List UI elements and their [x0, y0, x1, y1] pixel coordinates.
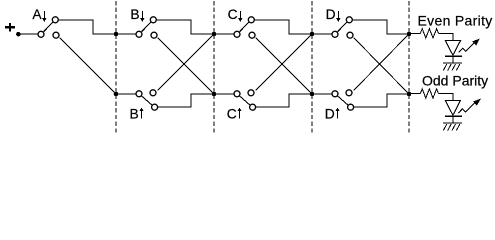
- label B with down arrow: [130, 7, 144, 22]
- wire: switch D top throw to node: [353, 20, 409, 34]
- wire: + to switch A: [21, 33, 38, 35]
- stage separator (dashed) 1: [115, 1, 117, 134]
- wire: resistor to LED (odd): [439, 94, 453, 101]
- node: bottom rail junction 2: [212, 92, 217, 97]
- switch C (bottom SPDT): [234, 90, 256, 110]
- wire: switch C upper throw diagonal to top rail: [256, 34, 312, 90]
- switch D (bottom SPDT): [332, 90, 354, 110]
- wire: bottom rail node to switch C: [214, 93, 234, 95]
- wire: switch A top throw to node: [59, 20, 116, 34]
- switch A (top SPDT): [38, 17, 59, 38]
- node: bottom rail junction 3: [310, 92, 315, 97]
- node: top rail junction 4: [407, 32, 412, 37]
- stage separator (dashed) 2: [213, 1, 215, 134]
- wire: switch D lower throw diagonal to bottom rail: [354, 38, 409, 94]
- wire: rail to resistor (even): [409, 32, 420, 35]
- svg-text:Even Parity: Even Parity: [418, 12, 493, 28]
- stage separator (dashed) 3: [311, 1, 313, 134]
- node: top rail junction 2: [212, 32, 217, 37]
- wire: resistor to LED (even): [439, 33, 453, 40]
- wire: switch B bottom throw to node: [158, 94, 214, 107]
- svg-text:D: D: [326, 7, 336, 22]
- LED odd: [445, 101, 462, 124]
- wire: switch C lower throw diagonal to bottom rail: [256, 38, 312, 94]
- svg-text:D: D: [325, 106, 335, 121]
- ground (even): [443, 63, 462, 70]
- label C with down arrow: [228, 7, 243, 22]
- wire: switch C top throw to node: [255, 20, 312, 34]
- + supply terminal: [5, 23, 15, 32]
- light emission arrow (even): [459, 39, 480, 53]
- node: top rail junction 3: [310, 32, 315, 37]
- light emission arrow (odd): [458, 99, 481, 114]
- svg-text:Odd Parity: Odd Parity: [422, 72, 488, 88]
- ground (odd): [443, 123, 462, 130]
- resistor (even): [420, 29, 438, 38]
- wire: switch B upper throw diagonal to top rail: [158, 34, 214, 90]
- wire: top rail node to switch B: [116, 33, 136, 35]
- label B with up arrow: [129, 106, 143, 121]
- stage separator (dashed) 4: [408, 1, 410, 134]
- label A with down arrow: [32, 7, 46, 22]
- wire: bottom rail node to switch B: [116, 93, 136, 95]
- label C with up arrow: [227, 106, 242, 121]
- node: bottom rail junction 4: [407, 92, 412, 97]
- wire: bottom rail node to switch D: [312, 93, 332, 95]
- wire: switch D upper throw diagonal to top rail: [354, 34, 409, 90]
- svg-text:A: A: [32, 7, 42, 22]
- label D with up arrow: [325, 106, 340, 121]
- svg-text:C: C: [227, 106, 237, 121]
- node: top rail junction 1: [114, 32, 119, 37]
- switch B (bottom SPDT): [136, 90, 158, 110]
- resistor (odd): [420, 89, 438, 98]
- svg-text:B: B: [130, 7, 139, 22]
- LED even: [445, 41, 462, 64]
- label D with down arrow: [326, 7, 341, 22]
- wire: top rail node to switch D: [312, 33, 332, 35]
- wire: switch A lower throw diagonal to bottom rail: [60, 38, 116, 94]
- wire: rail to resistor (odd): [409, 93, 420, 96]
- wire: switch D bottom throw to node: [354, 94, 409, 107]
- svg-text:C: C: [228, 7, 238, 22]
- wire: top rail node to switch C: [214, 33, 234, 35]
- switch C (top SPDT): [234, 17, 255, 38]
- node: bottom rail junction 1: [114, 92, 119, 97]
- svg-text:B: B: [129, 106, 138, 121]
- wire: switch B top throw to node: [157, 20, 214, 34]
- switch D (top SPDT): [332, 17, 353, 38]
- switch B (top SPDT): [136, 17, 157, 38]
- wire: switch B lower throw diagonal to bottom rail: [158, 38, 214, 94]
- wire: switch C bottom throw to node: [256, 94, 312, 107]
- node: + input dot: [16, 32, 21, 37]
